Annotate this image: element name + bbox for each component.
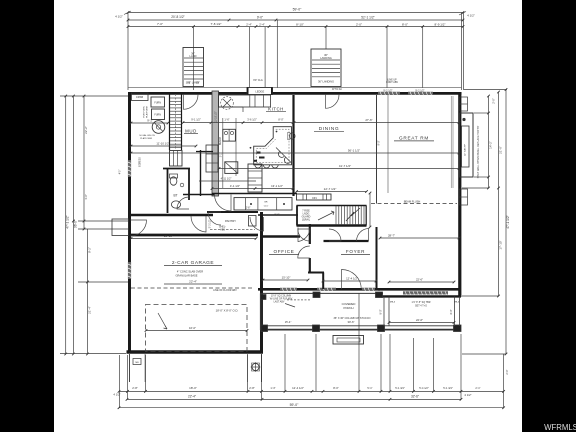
svg-text:5'-1": 5'-1" — [367, 386, 372, 390]
svg-text:22'-4": 22'-4" — [188, 395, 196, 399]
porch post top-left — [261, 295, 267, 300]
door office upper — [298, 229, 310, 241]
garage apron left jamb — [129, 354, 131, 382]
kitchen counter run along strip — [222, 118, 224, 188]
dimension line right inner — [488, 96, 490, 188]
svg-text:42" GAS FP: 42" GAS FP — [464, 144, 467, 156]
right exterior wall great room — [458, 92, 461, 297]
svg-text:FOYER: FOYER — [346, 249, 365, 254]
extension line garage-door-left — [145, 355, 147, 391]
svg-text:22'-6": 22'-6" — [416, 318, 423, 322]
extension line x249 — [249, 27, 251, 88]
extension tick left top — [60, 95, 128, 97]
door office lower — [298, 246, 310, 258]
svg-text:11'-10 1/2": 11'-10 1/2" — [215, 111, 218, 122]
extension line top-right corner — [461, 13, 463, 91]
dimension line 47'-1 1/2" left outer — [65, 96, 67, 354]
svg-text:5'-1 3/4": 5'-1 3/4" — [395, 386, 405, 390]
svg-text:PLATFORM: PLATFORM — [140, 137, 152, 140]
svg-text:SHET WALL BTWN PANEL REPLACE T: SHET WALL BTWN PANEL REPLACE TOP BY — [477, 125, 480, 178]
door office from hall — [298, 228, 310, 242]
svg-text:18'-0": 18'-0" — [189, 386, 197, 390]
svg-text:8'-0": 8'-0" — [402, 22, 408, 26]
extension tick right y188 — [462, 187, 489, 189]
svg-text:FURN: FURN — [154, 102, 161, 105]
coat closet — [248, 164, 262, 192]
extension line right corner bottom — [503, 354, 505, 408]
svg-text:4 1/2": 4 1/2" — [467, 14, 475, 18]
svg-text:4 1/2": 4 1/2" — [115, 15, 123, 19]
svg-text:2'-8": 2'-8" — [132, 386, 138, 390]
extension line x265 — [264, 27, 266, 88]
svg-text:7'-8 1/2": 7'-8 1/2" — [211, 22, 222, 26]
exterior stair landing box A — [183, 48, 204, 87]
svg-text:22'-6": 22'-6" — [416, 278, 423, 282]
svg-text:2-CAR GARAGE: 2-CAR GARAGE — [172, 260, 214, 266]
dimension kitchen bottom — [212, 188, 293, 190]
hall dimension — [199, 180, 256, 182]
dimension line right middle — [498, 92, 500, 296]
window front wall foyer left — [317, 288, 336, 291]
line of floor above garage — [131, 287, 254, 289]
svg-text:BT: BT — [173, 193, 177, 197]
extension tick right y296 — [462, 295, 499, 297]
stair hall wall kitchen side — [183, 194, 215, 196]
island stools — [255, 165, 261, 168]
dimension line left garage segment — [87, 229, 89, 354]
svg-text:MB-6: MB-6 — [454, 302, 460, 304]
dimension line bottom tier A — [119, 390, 504, 392]
svg-text:2'-1": 2'-1" — [475, 386, 480, 390]
extension line x193 — [193, 27, 195, 91]
stairs direction arrow — [318, 212, 334, 220]
toilet — [170, 177, 177, 185]
extension tick left bottom — [60, 353, 126, 355]
svg-text:BENCH: BENCH — [220, 137, 222, 145]
island sink — [290, 133, 296, 139]
svg-text:32'-6": 32'-6" — [411, 395, 419, 399]
extension line top-left corner — [127, 13, 129, 91]
svg-text:50 GAL WH ON: 50 GAL WH ON — [139, 134, 155, 137]
dimension 12'-4 1/2" foyer — [323, 280, 376, 282]
extension tick right bottom — [462, 353, 506, 355]
beam flush dashed line — [371, 203, 457, 205]
apron label left — [133, 359, 141, 365]
dimension 27'-6" dining — [294, 122, 459, 124]
svg-text:12'-4 1/2": 12'-4 1/2" — [346, 277, 358, 281]
porch post top 2 — [376, 292, 383, 298]
svg-text:LINE OF FLOOR ABV: LINE OF FLOOR ABV — [213, 289, 237, 292]
svg-text:13'-1 1/2": 13'-1 1/2" — [271, 184, 283, 188]
extension tick right top — [464, 89, 507, 91]
great room extension line x388 — [387, 95, 389, 193]
svg-text:11'-10 1/2": 11'-10 1/2" — [156, 142, 169, 146]
svg-text:9'-1 1/2": 9'-1 1/2" — [191, 118, 201, 122]
porch post bottom 1 — [261, 325, 268, 332]
svg-text:9'-2 1/2": 9'-2 1/2" — [383, 89, 392, 92]
svg-text:21'-6": 21'-6" — [498, 146, 502, 154]
dimension 41'-7 1/2" — [219, 168, 459, 170]
kitchen sink — [223, 129, 236, 141]
svg-text:ATTIC AC: ATTIC AC — [332, 88, 343, 91]
center wall gray strip — [212, 91, 219, 196]
dimension line left middle — [72, 96, 74, 354]
bath top wall — [163, 168, 190, 170]
dimension line 59'-0" bottom — [119, 407, 504, 409]
patio dim 22'-6" upper — [389, 281, 454, 283]
bath sink — [171, 201, 180, 208]
svg-text:17'-10": 17'-10" — [498, 240, 502, 249]
svg-text:LAND: LAND — [190, 54, 197, 58]
svg-text:15'-4": 15'-4" — [285, 320, 292, 324]
extension line porch post 1 — [284, 334, 286, 391]
extension line patio x413 — [413, 338, 415, 391]
extension tick left y221 — [78, 220, 131, 222]
svg-text:8'-0": 8'-0" — [278, 118, 283, 122]
pantry top wall — [207, 211, 258, 213]
svg-text:36" LANDING: 36" LANDING — [318, 80, 334, 84]
svg-text:OFFICE: OFFICE — [273, 249, 294, 254]
door foyer coat right — [357, 229, 369, 242]
water heater — [152, 121, 165, 134]
main stairs box — [297, 205, 367, 207]
extension line garage-left — [127, 355, 129, 399]
top exterior wall — [128, 92, 462, 95]
dimension mud lower — [131, 145, 196, 147]
front wall office-foyer — [258, 288, 380, 291]
foyer right wall — [376, 227, 378, 289]
patio column line right — [454, 296, 456, 326]
extension line x277 — [276, 20, 278, 88]
svg-text:2'-4": 2'-4" — [259, 22, 265, 26]
extension tick left y229 — [78, 228, 131, 230]
svg-text:12'-7 1/2": 12'-7 1/2" — [324, 187, 337, 191]
svg-text:5'-1 3/4": 5'-1 3/4" — [443, 386, 453, 390]
dimension 16'-0" garage door — [146, 330, 247, 332]
extension line porch post 3 — [380, 334, 382, 391]
fireplace bump-out — [460, 113, 474, 177]
svg-text:9'-1": 9'-1" — [147, 119, 153, 123]
svg-text:PORCH: PORCH — [343, 306, 353, 310]
porch post bottom 4 — [454, 325, 462, 332]
door top wall to mud — [184, 95, 199, 110]
svg-text:52'-1 1/2": 52'-1 1/2" — [361, 16, 374, 20]
svg-text:GRANULAR BASE: GRANULAR BASE — [175, 274, 197, 278]
svg-text:59'-0": 59'-0" — [293, 8, 302, 12]
door foyer coat — [329, 229, 341, 241]
window left wall mud — [128, 160, 131, 177]
svg-text:47'-1 1/2": 47'-1 1/2" — [506, 215, 510, 228]
exterior stair landing box B — [311, 49, 341, 87]
column symbol garage corner — [252, 363, 259, 370]
svg-text:2'-4": 2'-4" — [246, 22, 252, 26]
office-foyer wall upper — [309, 224, 311, 244]
svg-text:21'-4": 21'-4" — [87, 306, 91, 314]
bath right wall — [188, 169, 190, 201]
extension line garage-door-right — [247, 355, 249, 391]
svg-text:56'-1 1/2": 56'-1 1/2" — [348, 149, 360, 153]
svg-text:1'-3": 1'-3" — [270, 386, 275, 390]
hall closet row — [234, 198, 292, 210]
door top wall attic — [326, 95, 340, 109]
svg-text:PLATFORM: PLATFORM — [146, 106, 149, 118]
furnace box 2 — [152, 109, 165, 120]
extension line x326 — [325, 27, 327, 50]
garage top wall — [128, 234, 258, 237]
svg-text:CRSB: CRSB — [136, 95, 143, 99]
svg-text:9'9": 9'9" — [196, 82, 200, 85]
office-foyer wall lower — [309, 258, 311, 273]
extension line x387 — [386, 27, 388, 89]
dimension line left inner segments — [83, 96, 85, 229]
kitchen-dining wall — [292, 95, 294, 196]
dimension line 59'-0" overall top — [128, 12, 463, 14]
extension line porch front door — [358, 293, 360, 391]
extension tick left y282 — [78, 281, 131, 283]
dimension 56'-1 1/2" — [131, 152, 459, 154]
extension line x422 — [422, 27, 424, 89]
ceiling fixture dashed circle — [221, 97, 234, 110]
svg-text:14'-2": 14'-2" — [488, 141, 492, 149]
garage door dashed opening — [146, 305, 248, 352]
patio dim 22'-6" — [389, 322, 454, 324]
window top wall dining — [378, 92, 400, 95]
great room east ledge lines — [450, 96, 452, 188]
svg-text:GREAT RM: GREAT RM — [399, 135, 429, 140]
svg-text:8'-0": 8'-0" — [333, 386, 339, 390]
hall stub wall — [196, 151, 213, 153]
svg-text:WFRMLS: WFRMLS — [544, 423, 576, 432]
svg-text:15'-10": 15'-10" — [282, 276, 291, 280]
window top wall great room — [408, 92, 433, 95]
dimension line 47'-1 1/2" right outer — [505, 90, 507, 355]
cabinet right wall upper — [460, 97, 468, 111]
svg-text:20'-10": 20'-10" — [164, 234, 173, 238]
kitchen bottom wall — [212, 193, 297, 195]
dimension kitchen top — [183, 122, 293, 124]
svg-text:8'-10": 8'-10" — [296, 22, 304, 26]
kitchen counter edge — [219, 106, 244, 108]
svg-text:VES: VES — [220, 229, 225, 232]
mud cubby box — [170, 151, 183, 167]
svg-text:BEAM FLUSH: BEAM FLUSH — [404, 199, 421, 203]
svg-text:FOR FURN: FOR FURN — [144, 106, 146, 118]
svg-text:PANTRY: PANTRY — [225, 219, 236, 223]
hall closet box — [249, 216, 257, 227]
island faucet marks — [257, 152, 261, 154]
window front wall office — [280, 288, 297, 291]
svg-text:4'-0": 4'-0" — [120, 170, 122, 175]
door bath — [177, 197, 189, 209]
office closet jog wall — [308, 272, 324, 274]
extension line house-right-bottom — [460, 334, 462, 399]
svg-text:LAST ABV: LAST ABV — [274, 301, 285, 304]
stairs break squiggle — [346, 208, 360, 221]
window great room front — [403, 291, 448, 294]
svg-text:9'9" CLG: 9'9" CLG — [253, 79, 263, 82]
svg-text:EGRESS: EGRESS — [140, 157, 142, 167]
patio column line left — [383, 296, 385, 326]
svg-text:27'-6": 27'-6" — [365, 118, 372, 122]
window left wall garage — [128, 262, 131, 279]
extension line bottom left corner — [119, 355, 121, 408]
garage apron right jamb — [247, 354, 249, 382]
extension tick right y177 — [474, 176, 489, 178]
svg-text:3'-6 1/2": 3'-6 1/2" — [247, 118, 257, 122]
stair right dim line — [369, 193, 371, 227]
extension line garage-right — [261, 355, 263, 399]
porch top edge left — [260, 292, 383, 294]
svg-text:9'-0": 9'-0" — [378, 140, 381, 145]
svg-text:20'-8 1/2": 20'-8 1/2" — [171, 15, 184, 19]
svg-text:FURN: FURN — [154, 114, 161, 117]
porch post bottom 2 — [313, 325, 320, 332]
porch post bottom 3 — [378, 325, 385, 332]
svg-text:16'-0": 16'-0" — [189, 326, 196, 330]
garage door leader — [158, 313, 167, 329]
svg-text:LEDGE: LEDGE — [255, 89, 264, 93]
svg-text:2'-8": 2'-8" — [249, 386, 255, 390]
svg-text:4'-11 1/2": 4'-11 1/2" — [221, 177, 232, 181]
svg-text:8'-0": 8'-0" — [450, 309, 453, 314]
dining great-room divider — [376, 95, 378, 204]
svg-text:22'-2": 22'-2" — [84, 126, 88, 134]
office top wall — [261, 235, 300, 237]
svg-text:4" CONC SLAB OVER: 4" CONC SLAB OVER — [177, 270, 203, 274]
garage right wall / office left wall — [260, 212, 263, 352]
svg-text:MB-6: MB-6 — [390, 302, 396, 304]
left exterior wall — [128, 92, 131, 353]
door hall to office side — [250, 217, 264, 231]
door garage side entry — [131, 220, 147, 236]
svg-text:9'-0": 9'-0" — [257, 16, 263, 20]
kitchen ledge niche — [247, 88, 273, 95]
dimension 15'-10" office — [263, 279, 308, 281]
closet box CRSB — [132, 93, 149, 101]
svg-text:7'-0": 7'-0" — [157, 22, 163, 26]
svg-text:18'-0" X 8'-0" O.D.: 18'-0" X 8'-0" O.D. — [216, 309, 239, 313]
great room patio slab edge — [381, 295, 461, 297]
svg-text:8'-9 1/2": 8'-9 1/2" — [435, 22, 446, 26]
svg-text:2'-0": 2'-0" — [356, 22, 362, 26]
garage front wall — [127, 350, 264, 353]
svg-text:LANDING: LANDING — [320, 56, 332, 60]
svg-text:28'-7": 28'-7" — [388, 234, 395, 238]
extension line patio x433 — [433, 338, 435, 391]
door pantry — [208, 212, 221, 225]
svg-text:36'1: 36'1 — [186, 82, 191, 85]
dimension 20'-10" garage — [131, 238, 256, 240]
svg-text:2'-0": 2'-0" — [492, 98, 496, 104]
svg-text:BR: BR — [264, 202, 267, 204]
door kitchen hall — [215, 195, 232, 212]
svg-text:MB: MB — [135, 362, 139, 364]
mud lockers — [206, 145, 218, 172]
svg-text:1'-6": 1'-6" — [224, 118, 229, 122]
svg-text:CLO: CLO — [264, 206, 269, 208]
svg-text:41'-7 1/2": 41'-7 1/2" — [339, 164, 351, 168]
hall wall x201 — [200, 150, 202, 196]
extension tick right y113 — [474, 112, 489, 114]
cabinet right wall lower — [460, 189, 468, 205]
stair railing row — [297, 194, 332, 200]
window front wall foyer right — [362, 288, 375, 291]
porch post top 1 — [313, 292, 320, 298]
front step — [333, 336, 364, 345]
porch left edge — [259, 293, 261, 330]
svg-text:4 1/2": 4 1/2" — [464, 393, 471, 397]
extension line patio x390 — [389, 334, 391, 391]
front wall great room — [378, 288, 461, 291]
line up cont abv thin line — [128, 86, 462, 88]
dimension mud — [131, 122, 168, 124]
svg-text:36'-0": 36'-0" — [74, 220, 78, 228]
svg-text:22'-4": 22'-4" — [189, 280, 197, 284]
dimension line bottom tier B — [127, 398, 461, 400]
svg-text:8'-6": 8'-6" — [274, 213, 279, 217]
right letterbox bar — [522, 0, 576, 432]
porch bottom rail — [260, 325, 461, 327]
svg-text:MUD: MUD — [185, 128, 197, 133]
svg-text:2'-8": 2'-8" — [246, 208, 251, 210]
svg-text:47'-1 1/2": 47'-1 1/2" — [66, 215, 70, 228]
svg-text:8'-0": 8'-0" — [380, 309, 383, 314]
dimension line second tier top — [128, 19, 463, 21]
left letterbox bar — [0, 0, 54, 432]
svg-text:9'-2": 9'-2" — [87, 247, 91, 253]
svg-text:DN: DN — [312, 196, 316, 200]
basement stair strip — [169, 94, 171, 150]
kitchen counter top run — [219, 95, 271, 107]
door garage to hall — [191, 216, 206, 232]
svg-text:30'-6": 30'-6" — [347, 320, 354, 324]
svg-text:(3)RAIL: (3)RAIL — [302, 219, 311, 222]
mud block bottom wall — [128, 214, 213, 216]
foyer north wall — [324, 240, 369, 242]
dimension 28'-7" — [380, 237, 459, 239]
svg-text:2'-0": 2'-0" — [505, 369, 509, 374]
svg-text:59'-0": 59'-0" — [290, 403, 299, 407]
svg-text:10' 8" SQ COLUMN: 10' 8" SQ COLUMN — [271, 296, 292, 298]
svg-text:CONT ABV: CONT ABV — [386, 81, 398, 84]
furnace box 1 — [151, 97, 165, 107]
extension line porch post 2 — [315, 334, 317, 391]
svg-text:DINING: DINING — [319, 126, 340, 131]
svg-text:9'-2 1/2": 9'-2 1/2" — [415, 89, 424, 92]
front door — [342, 270, 362, 290]
svg-text:5'-4 1/2": 5'-4 1/2" — [419, 386, 429, 390]
kitchen island — [254, 127, 292, 165]
bath left wall — [167, 168, 169, 213]
svg-text:4'-1 1/2": 4'-1 1/2" — [230, 184, 240, 188]
svg-text:12'-4 1/2": 12'-4 1/2" — [292, 386, 304, 390]
dimension 12'-7 1/2" stairs — [297, 191, 367, 193]
dimension line third tier top — [128, 26, 463, 28]
svg-text:W/ LINE OF FLR ABV: W/ LINE OF FLR ABV — [270, 298, 293, 301]
svg-text:KITCH: KITCH — [268, 106, 284, 111]
hall south wall — [258, 214, 298, 216]
svg-text:SET 4 T+G: SET 4 T+G — [415, 305, 427, 308]
svg-text:1'-6": 1'-6" — [84, 194, 88, 200]
kitchen appliance box — [225, 162, 238, 174]
